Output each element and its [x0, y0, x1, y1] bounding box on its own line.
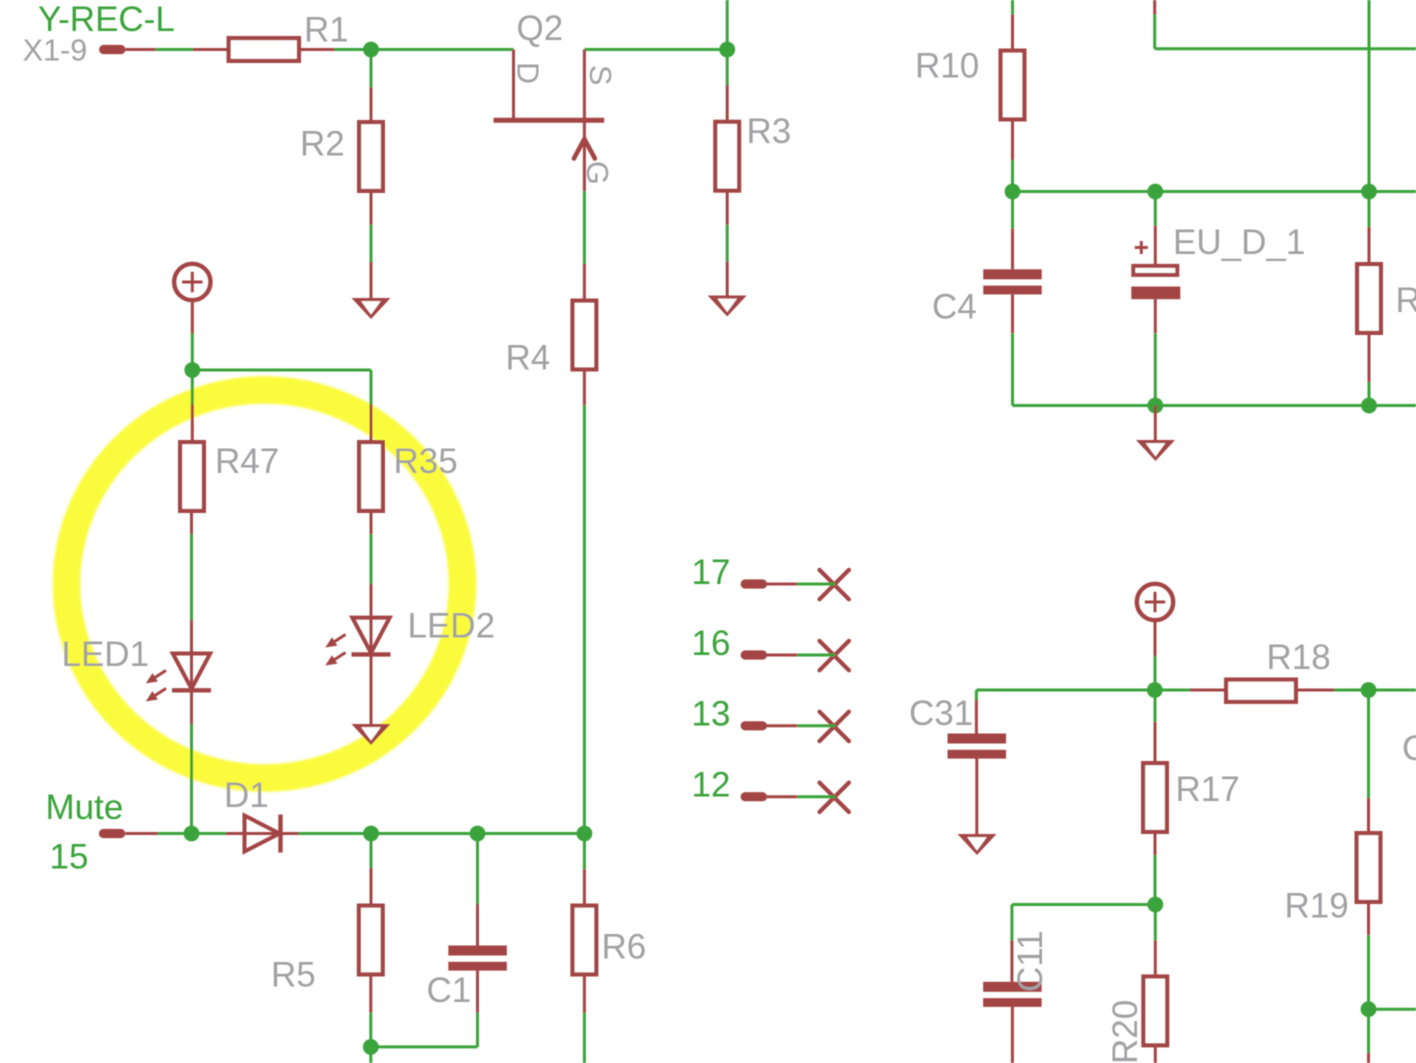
svg-text:EU_D_1: EU_D_1	[1173, 223, 1305, 262]
svg-text:R20: R20	[1106, 1000, 1145, 1063]
svg-text:S: S	[583, 65, 617, 85]
svg-text:R3: R3	[747, 112, 792, 151]
svg-text:R10: R10	[915, 47, 979, 86]
svg-text:R35: R35	[394, 442, 458, 481]
svg-text:15: 15	[50, 837, 89, 876]
svg-text:LED2: LED2	[408, 607, 496, 646]
svg-text:C: C	[1402, 729, 1416, 768]
svg-text:17: 17	[692, 553, 731, 592]
svg-text:D: D	[511, 62, 545, 84]
svg-text:R19: R19	[1285, 887, 1349, 926]
svg-text:G: G	[580, 161, 614, 185]
svg-text:R1: R1	[304, 11, 349, 50]
svg-text:C1: C1	[427, 971, 472, 1010]
svg-text:R6: R6	[602, 928, 647, 967]
svg-text:X1-9: X1-9	[23, 34, 87, 68]
svg-text:R18: R18	[1267, 638, 1331, 677]
svg-text:R47: R47	[215, 442, 279, 481]
svg-text:13: 13	[692, 695, 731, 734]
svg-text:Mute: Mute	[46, 788, 124, 827]
svg-text:Q2: Q2	[517, 9, 564, 48]
svg-text:R5: R5	[271, 956, 316, 995]
svg-text:R: R	[1396, 281, 1416, 320]
svg-text:C11: C11	[1011, 930, 1050, 992]
svg-text:C31: C31	[909, 694, 973, 733]
svg-text:R2: R2	[300, 125, 345, 164]
svg-text:C4: C4	[932, 288, 977, 327]
svg-text:D1: D1	[224, 776, 269, 815]
svg-text:LED1: LED1	[62, 635, 150, 674]
svg-text:12: 12	[692, 766, 731, 805]
svg-text:R17: R17	[1176, 770, 1240, 809]
svg-text:16: 16	[692, 624, 731, 663]
svg-text:R4: R4	[506, 339, 551, 378]
